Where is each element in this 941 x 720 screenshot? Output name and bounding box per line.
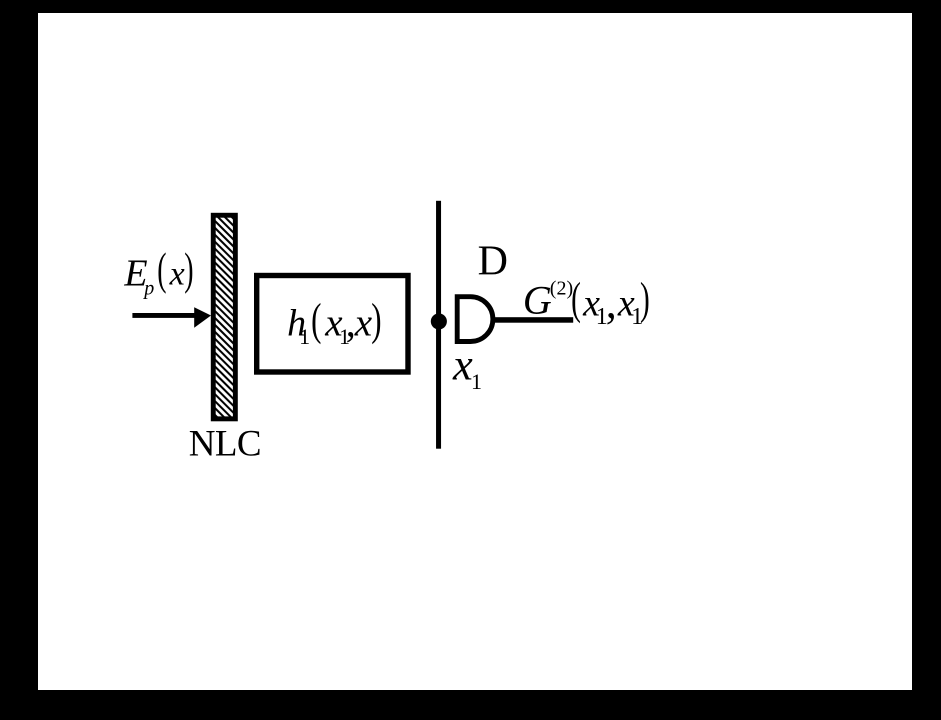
- svg-text:p: p: [142, 278, 154, 300]
- svg-text:1: 1: [471, 369, 482, 394]
- svg-text:(2): (2): [550, 278, 573, 300]
- arrow (pump input): [132, 307, 211, 327]
- svg-text:D: D: [478, 239, 508, 285]
- svg-text:,: ,: [606, 278, 617, 327]
- svg-text:): ): [371, 295, 381, 345]
- box h1(x1,x) impulse response: [257, 276, 408, 373]
- node dot x1 on detection plane: [431, 313, 447, 329]
- svg-text:G: G: [523, 277, 552, 322]
- label x1 (detector position): [452, 340, 482, 395]
- svg-text:x: x: [169, 255, 185, 292]
- label Ep(x) pump field: [123, 246, 193, 300]
- label G(2)(x1,x1) correlation function: [523, 274, 650, 330]
- svg-text:x: x: [452, 340, 473, 390]
- wire: detection plane vertical line: [436, 201, 441, 449]
- label h1(x1,x): [287, 295, 381, 349]
- svg-text:): ): [184, 246, 193, 295]
- svg-text:NLC: NLC: [189, 424, 261, 465]
- wire: detector output line: [494, 317, 573, 323]
- svg-text:x: x: [354, 301, 373, 344]
- svg-text:(: (: [311, 295, 321, 345]
- svg-text:(: (: [571, 274, 581, 324]
- detector D (D-shaped photodetector symbol): [457, 297, 493, 342]
- svg-text:1: 1: [299, 324, 310, 349]
- svg-text:(: (: [157, 246, 166, 295]
- svg-text:): ): [640, 274, 650, 324]
- crystal NLC (hatched rectangle): [213, 215, 235, 419]
